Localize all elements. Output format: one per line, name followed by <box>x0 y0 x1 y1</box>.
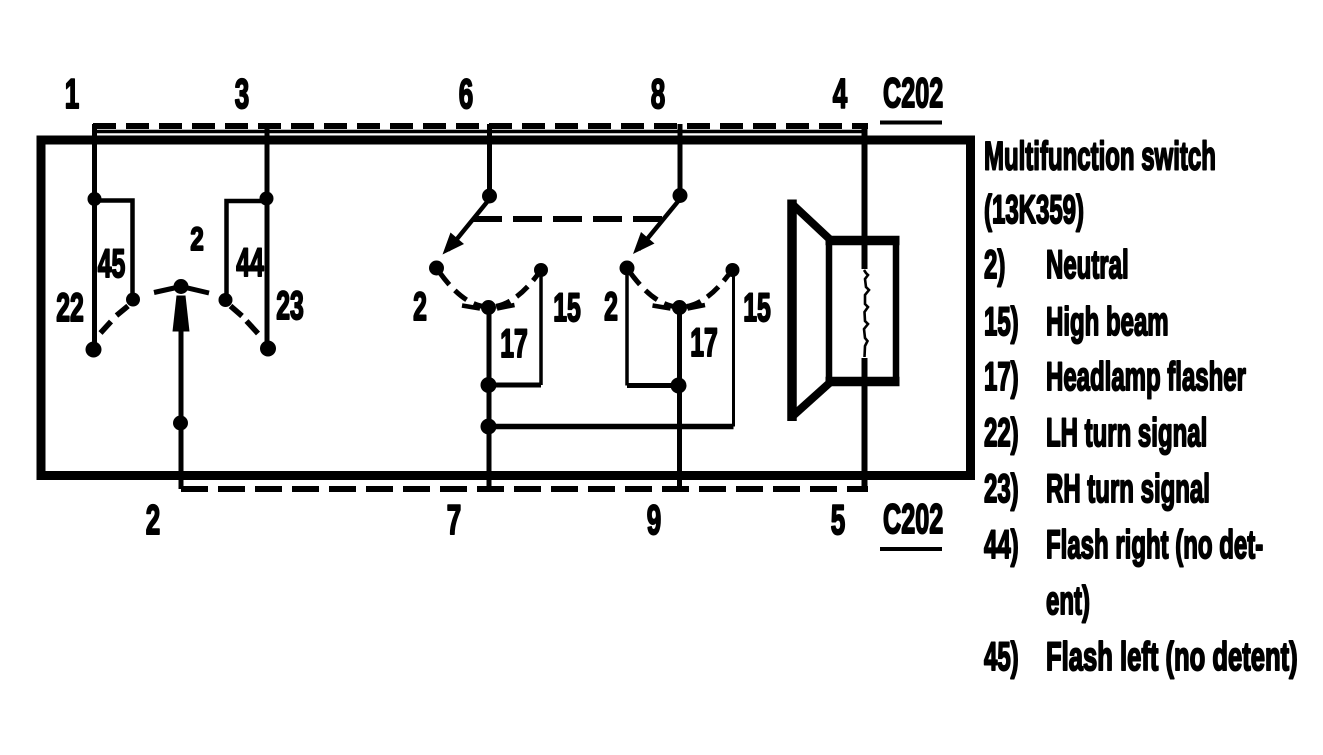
dimmer trapezoid bottom slant <box>791 383 831 419</box>
dimmer coil rectangle top edge <box>826 236 900 246</box>
svg-text:RH turn signal: RH turn signal <box>1046 466 1210 511</box>
wire right contact 2 down <box>625 275 629 386</box>
contact 22 dot <box>86 342 102 358</box>
node junction 2/pin9 <box>671 378 687 394</box>
right switch dashed arc <box>627 268 732 307</box>
mechanical linkage dashed line <box>473 216 663 222</box>
dimmer trapezoid top slant <box>791 203 831 240</box>
svg-text:High beam: High beam <box>1046 299 1169 344</box>
left switch arc dash a <box>117 306 129 316</box>
svg-text:15: 15 <box>743 286 771 330</box>
wire pin 4 vertical upper <box>862 124 868 269</box>
svg-text:LH turn signal: LH turn signal <box>1046 410 1207 455</box>
wire pin 5 vertical lower <box>862 358 868 489</box>
svg-text:15: 15 <box>553 286 581 330</box>
svg-text:22): 22) <box>984 410 1019 455</box>
wire pin 6 vertical <box>487 124 492 198</box>
wire pin 8 vertical <box>678 124 683 198</box>
wire junction to contact 45 <box>95 201 133 299</box>
node junction pin1/45 <box>88 192 102 206</box>
right switch wiper arrowhead <box>633 232 655 254</box>
contact 2 (neutral) dot left switch <box>174 279 189 294</box>
middle switch contact 2 dot <box>429 261 444 276</box>
contact 23 dot <box>260 341 276 357</box>
svg-text:1: 1 <box>65 71 79 118</box>
left switch wiper arrow <box>173 296 190 332</box>
wire crossbar 15 to pin 7 <box>489 424 734 430</box>
contact 44 dot <box>219 293 233 307</box>
wire pin 1 vertical <box>92 124 97 349</box>
left switch arc dash b <box>101 322 112 334</box>
svg-text:2: 2 <box>604 285 618 329</box>
wire junction to contact 44 <box>227 201 267 298</box>
svg-text:2: 2 <box>413 285 427 329</box>
right switch arc bottom wings <box>653 305 706 309</box>
svg-text:23): 23) <box>984 466 1019 511</box>
svg-text:2): 2) <box>984 242 1005 287</box>
left switch arc dash c <box>231 306 243 316</box>
svg-text:(13K359): (13K359) <box>984 187 1084 232</box>
svg-text:6: 6 <box>459 71 473 118</box>
svg-text:7: 7 <box>447 497 461 544</box>
svg-text:45: 45 <box>98 242 126 286</box>
dimmer coil rectangle right edge <box>893 236 900 386</box>
wire right contact 15 down thin <box>732 276 735 427</box>
left switch arc dash d <box>247 321 259 334</box>
svg-text:8: 8 <box>651 71 665 118</box>
svg-text:15): 15) <box>984 299 1019 344</box>
middle switch dashed arc <box>437 268 542 307</box>
dimmer coil rectangle bottom edge <box>826 377 900 387</box>
node junction 15/pin7 <box>481 377 497 393</box>
svg-text:22: 22 <box>56 286 84 330</box>
svg-text:C202: C202 <box>883 497 943 543</box>
svg-text:4: 4 <box>833 71 848 118</box>
middle switch contact 17 dot (arc bottom) <box>481 300 496 315</box>
middle switch pole dot <box>482 189 497 204</box>
multifunction switch outline box <box>41 140 971 476</box>
svg-text:Flash left (no detent): Flash left (no detent) <box>1046 635 1298 679</box>
connector C202 top solid bus line <box>95 130 865 134</box>
svg-text:17: 17 <box>500 322 528 366</box>
svg-text:23: 23 <box>276 284 304 328</box>
middle switch arc bottom wings <box>462 305 515 309</box>
svg-text:17): 17) <box>984 354 1019 399</box>
svg-text:2: 2 <box>190 221 203 257</box>
connector C202 bottom label underline <box>880 547 942 551</box>
coil squiggle element <box>864 270 869 357</box>
svg-text:Multifunction switch: Multifunction switch <box>984 133 1216 178</box>
contact 45 dot <box>126 293 140 307</box>
wire pin 7 vertical <box>487 307 492 489</box>
wire contact 15 down <box>539 275 543 385</box>
right switch contact 2 dot <box>620 261 635 276</box>
dimmer coil symbol trapezoid <box>787 200 797 422</box>
wire 15 to pin 7 <box>489 383 541 388</box>
svg-text:Headlamp flasher: Headlamp flasher <box>1046 354 1246 399</box>
wire pin 9 vertical <box>677 307 682 489</box>
node junction crossbar/pin7 <box>481 419 497 435</box>
right switch contact 15 dot <box>726 263 740 277</box>
svg-text:3: 3 <box>235 71 249 118</box>
svg-text:45): 45) <box>984 634 1019 679</box>
wire right 2 to pin 9 <box>627 383 680 388</box>
right switch contact 17 dot (arc bottom) <box>672 300 687 315</box>
node junction pin3/44 <box>260 192 274 206</box>
svg-text:9: 9 <box>647 497 661 544</box>
wire pin 2 vertical <box>179 330 184 489</box>
dimmer coil rectangle left edge <box>826 236 833 386</box>
right switch wiper arm <box>639 199 681 250</box>
middle switch wiper arm <box>448 199 490 250</box>
node dot on pin 2 wire <box>173 416 188 431</box>
svg-text:44: 44 <box>236 241 264 285</box>
connector C202 bottom dashed line <box>181 486 868 492</box>
svg-text:ent): ent) <box>1046 578 1090 623</box>
svg-text:Flash right (no det-: Flash right (no det- <box>1046 522 1263 567</box>
svg-text:17: 17 <box>690 321 718 365</box>
connector C202 top label underline <box>880 121 942 125</box>
right switch pole dot <box>673 188 688 203</box>
svg-text:2: 2 <box>146 497 160 544</box>
svg-text:5: 5 <box>831 497 845 544</box>
middle switch wiper arrowhead <box>443 233 465 255</box>
svg-text:Neutral: Neutral <box>1046 242 1129 287</box>
svg-text:C202: C202 <box>883 71 943 117</box>
middle switch contact 15 dot <box>534 263 548 277</box>
svg-text:44): 44) <box>984 522 1019 567</box>
left switch arc solid wings <box>154 287 209 294</box>
connector C202 top dashed line <box>93 123 868 129</box>
wire pin 3 vertical <box>265 124 270 348</box>
